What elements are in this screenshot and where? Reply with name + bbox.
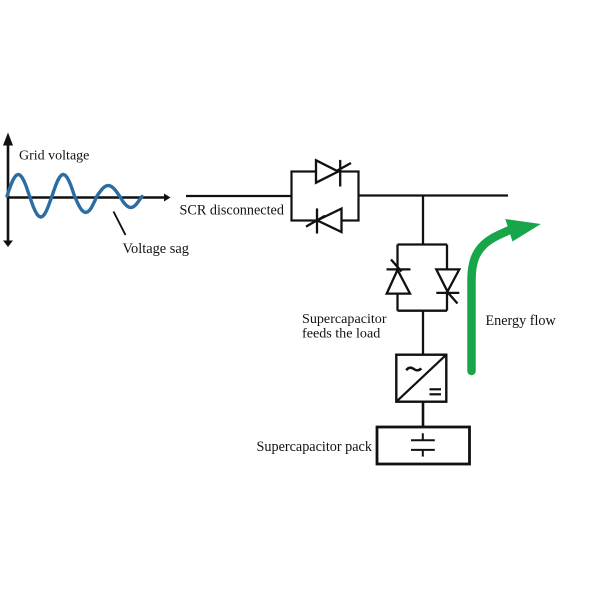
svg-text:SCR disconnected: SCR disconnected [180, 203, 284, 219]
svg-text:Energy flow: Energy flow [486, 313, 557, 329]
svg-text:feeds the load: feeds the load [302, 326, 380, 342]
svg-text:Voltage sag: Voltage sag [123, 241, 189, 257]
svg-text:Grid voltage: Grid voltage [19, 149, 89, 164]
svg-text:Supercapacitor pack: Supercapacitor pack [257, 439, 373, 455]
